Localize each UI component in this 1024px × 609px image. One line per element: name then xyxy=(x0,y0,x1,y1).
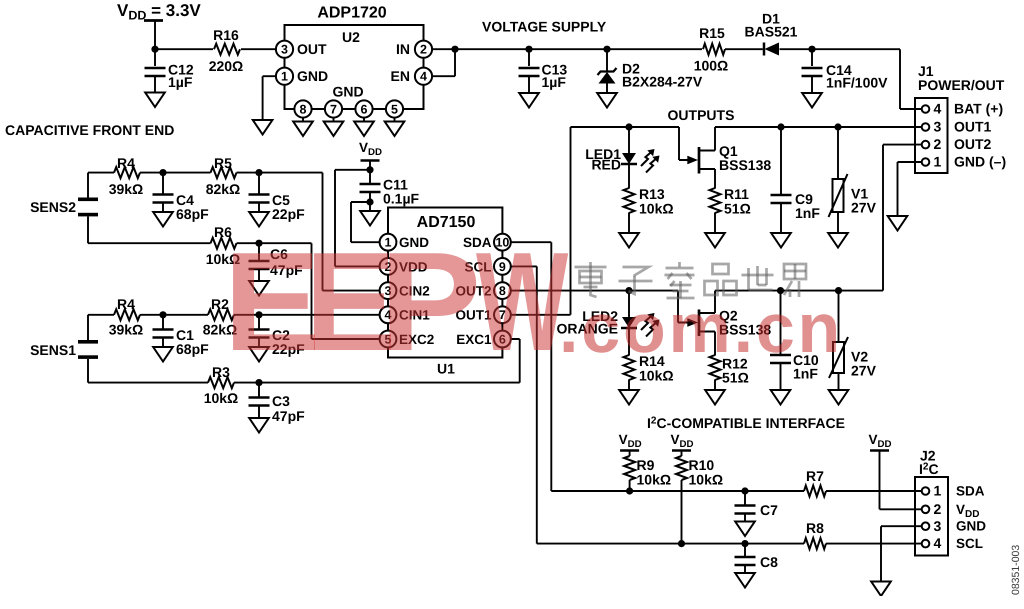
svg-text:1nF/100V: 1nF/100V xyxy=(826,75,888,91)
svg-text:6: 6 xyxy=(361,102,368,116)
svg-text:82kΩ: 82kΩ xyxy=(206,181,241,197)
svg-text:0.1µF: 0.1µF xyxy=(383,191,420,207)
svg-text:4: 4 xyxy=(934,101,942,117)
svg-text:47pF: 47pF xyxy=(272,408,305,424)
svg-text:DD: DD xyxy=(368,147,382,158)
svg-text:C7: C7 xyxy=(760,502,778,518)
svg-text:7: 7 xyxy=(330,102,337,116)
svg-text:RED: RED xyxy=(591,157,621,173)
svg-text:2: 2 xyxy=(934,136,942,152)
svg-text:EN: EN xyxy=(391,68,410,84)
svg-text:V: V xyxy=(868,432,877,447)
svg-text:R16: R16 xyxy=(213,27,239,43)
svg-text:R15: R15 xyxy=(699,25,725,41)
svg-text:DD: DD xyxy=(878,439,892,450)
svg-text:1: 1 xyxy=(281,70,288,84)
svg-text:V: V xyxy=(619,432,628,447)
svg-text:B2X284-27V: B2X284-27V xyxy=(622,74,703,90)
svg-text:OUTPUTS: OUTPUTS xyxy=(668,107,735,123)
svg-text:SENS1: SENS1 xyxy=(30,342,76,358)
svg-text:10kΩ: 10kΩ xyxy=(689,472,724,488)
svg-text:SENS2: SENS2 xyxy=(30,199,76,215)
svg-text:10kΩ: 10kΩ xyxy=(639,368,674,384)
svg-text:IN: IN xyxy=(396,41,410,57)
svg-text:SDA: SDA xyxy=(956,484,985,499)
svg-text:3: 3 xyxy=(934,119,942,135)
svg-text:W: W xyxy=(476,224,568,381)
svg-text:V: V xyxy=(359,140,368,155)
svg-text:1nF: 1nF xyxy=(795,205,820,221)
svg-text:GND: GND xyxy=(332,84,363,100)
svg-text:1µF: 1µF xyxy=(542,74,567,90)
svg-text:I2C: I2C xyxy=(919,461,939,477)
svg-text:R4: R4 xyxy=(117,296,135,312)
svg-text:DD: DD xyxy=(680,439,694,450)
svg-text:1: 1 xyxy=(934,483,942,499)
svg-text:1: 1 xyxy=(934,154,942,170)
svg-text:CAPACITIVE FRONT END: CAPACITIVE FRONT END xyxy=(5,122,174,138)
svg-text:3: 3 xyxy=(934,518,942,534)
svg-text:I2C-COMPATIBLE INTERFACE: I2C-COMPATIBLE INTERFACE xyxy=(647,415,845,431)
svg-text:2: 2 xyxy=(934,501,942,517)
svg-text:BAS521: BAS521 xyxy=(745,24,798,40)
svg-text:BSS138: BSS138 xyxy=(719,157,771,173)
svg-text:5: 5 xyxy=(391,102,398,116)
svg-text:ADP1720: ADP1720 xyxy=(317,5,386,22)
svg-text:68pF: 68pF xyxy=(176,341,209,357)
svg-text:POWER/OUT: POWER/OUT xyxy=(918,77,1005,93)
svg-text:4: 4 xyxy=(420,70,427,84)
svg-text:GND: GND xyxy=(297,68,328,84)
svg-text:39kΩ: 39kΩ xyxy=(109,322,144,338)
svg-text:51Ω: 51Ω xyxy=(722,370,749,386)
svg-text:1µF: 1µF xyxy=(168,74,193,90)
svg-text:27V: 27V xyxy=(851,363,877,379)
svg-text:C3: C3 xyxy=(272,393,290,409)
svg-text:DD: DD xyxy=(628,439,642,450)
svg-text:OUT: OUT xyxy=(297,41,327,57)
svg-text:P: P xyxy=(379,224,481,381)
svg-text:R4: R4 xyxy=(117,155,135,171)
svg-text:OUT1: OUT1 xyxy=(954,119,992,135)
svg-text:BAT (+): BAT (+) xyxy=(954,101,1003,117)
svg-text:22pF: 22pF xyxy=(272,206,305,222)
svg-text:U2: U2 xyxy=(342,29,360,45)
svg-text:OUT2: OUT2 xyxy=(954,136,992,152)
svg-text:27V: 27V xyxy=(851,200,877,216)
svg-text:10kΩ: 10kΩ xyxy=(204,390,239,406)
svg-text:68pF: 68pF xyxy=(176,206,209,222)
svg-text:GND: GND xyxy=(956,519,986,534)
svg-text:08351-003: 08351-003 xyxy=(1010,545,1022,595)
svg-text:1nF: 1nF xyxy=(793,366,818,382)
svg-text:R5: R5 xyxy=(214,155,232,171)
svg-text:GND (–): GND (–) xyxy=(954,154,1006,170)
svg-text:10kΩ: 10kΩ xyxy=(637,472,672,488)
svg-text:2: 2 xyxy=(420,43,427,57)
svg-text:3: 3 xyxy=(281,43,288,57)
svg-text:39kΩ: 39kΩ xyxy=(109,181,144,197)
svg-text:VOLTAGE SUPPLY: VOLTAGE SUPPLY xyxy=(482,19,607,35)
svg-text:220Ω: 220Ω xyxy=(209,58,244,74)
svg-text:SCL: SCL xyxy=(956,536,983,551)
svg-text:V: V xyxy=(670,432,679,447)
svg-text:R8: R8 xyxy=(806,520,824,536)
svg-text:8: 8 xyxy=(300,102,307,116)
svg-text:4: 4 xyxy=(934,535,942,551)
svg-text:.com.cn: .com.cn xyxy=(559,289,843,367)
svg-text:100Ω: 100Ω xyxy=(694,58,729,74)
svg-text:R7: R7 xyxy=(806,468,824,484)
svg-text:10kΩ: 10kΩ xyxy=(639,201,674,217)
svg-text:C8: C8 xyxy=(760,554,778,570)
svg-text:51Ω: 51Ω xyxy=(724,201,751,217)
